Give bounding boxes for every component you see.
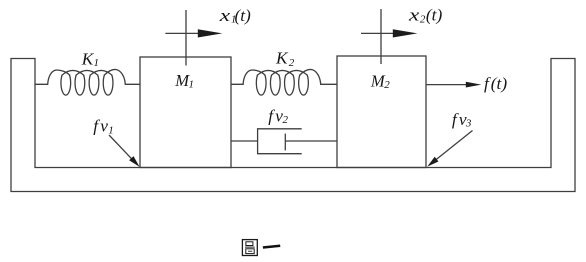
label K2 — [275, 49, 295, 70]
spring K2 — [231, 69, 337, 95]
label K1 — [81, 50, 99, 70]
label x2(t) — [408, 6, 443, 26]
x2 arrow shaft — [361, 32, 400, 34]
label fv3 — [452, 110, 472, 130]
damper fv2 rod right — [285, 140, 337, 142]
label f(t) — [484, 74, 507, 93]
svg-text:f: f — [268, 107, 275, 126]
label x1(t) — [218, 6, 251, 26]
mass M1 — [140, 57, 231, 168]
svg-text:x: x — [408, 6, 420, 25]
svg-text:3: 3 — [465, 118, 472, 130]
x2 reference vertical line — [380, 9, 382, 64]
frame (U-channel ground) — [11, 59, 575, 192]
x1 arrow shaft — [165, 32, 205, 34]
fv1 pointer line — [109, 135, 134, 161]
fv1 arrowhead — [129, 156, 140, 167]
spring K1 — [35, 69, 140, 95]
svg-text:2: 2 — [289, 57, 295, 69]
f(t) arrow shaft — [426, 84, 470, 86]
x2 arrowhead — [393, 29, 418, 37]
label M1 — [174, 71, 194, 90]
svg-text:(t): (t) — [491, 74, 508, 93]
fv3 arrowhead — [427, 157, 438, 167]
svg-text:2: 2 — [384, 79, 390, 91]
f(t) arrowhead — [466, 82, 482, 88]
svg-text:v: v — [100, 117, 108, 136]
damper fv2 rod left — [231, 140, 258, 142]
x1 reference vertical line — [185, 10, 187, 66]
damper fv2 piston — [284, 134, 286, 151]
svg-text:1: 1 — [94, 57, 100, 69]
fv3 pointer line — [433, 131, 473, 163]
caption 一 (one) glyph — [263, 246, 280, 248]
svg-text:(t): (t) — [426, 6, 443, 25]
label fv2 — [268, 107, 288, 126]
x1 arrowhead — [198, 29, 223, 37]
svg-text:x: x — [218, 6, 230, 25]
svg-text:f: f — [93, 117, 100, 136]
label fv1 — [93, 117, 114, 137]
svg-text:1: 1 — [189, 78, 195, 90]
svg-text:1: 1 — [108, 124, 114, 136]
mass M2 — [337, 56, 426, 168]
svg-text:f: f — [452, 110, 459, 129]
svg-text:K: K — [275, 49, 289, 68]
label M2 — [370, 71, 390, 91]
damper fv2 cylinder — [258, 129, 302, 154]
svg-text:(t): (t) — [235, 6, 252, 25]
svg-text:2: 2 — [283, 114, 289, 126]
caption 圖 (figure) glyph drawn as strokes — [242, 240, 257, 256]
